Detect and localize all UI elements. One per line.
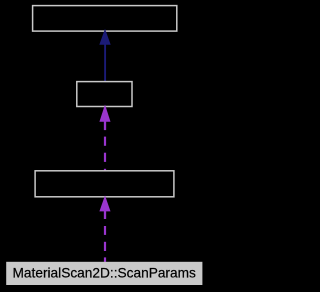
wire: dashed shaft stub below arrowhead <box>104 121 106 130</box>
node MaterialScan2D::ScanParams (filled grey box) <box>6 262 202 285</box>
arrowhead: dashed usage arrow pointing up into middle box (darkorchid) <box>99 105 110 122</box>
wire: dash segment 1 <box>104 137 106 146</box>
wire: dash segment 3 <box>104 257 106 262</box>
arrowhead: inheritance arrow pointing up into top box <box>99 29 110 45</box>
node box top (base class, label hidden on black) <box>33 6 177 32</box>
wire: dash segment 2 <box>104 153 106 162</box>
wire: dash segment 1 <box>104 226 106 235</box>
wire: dashed shaft stub below arrowhead <box>104 211 106 219</box>
node box third <box>35 171 174 197</box>
svg-text:MaterialScan2D::ScanParams: MaterialScan2D::ScanParams <box>13 266 196 281</box>
arrowhead: dashed usage arrow pointing up into third box (darkorchid) <box>99 195 110 211</box>
wire: dash segment 2 <box>104 242 106 251</box>
wire: dash segment 3 <box>104 169 106 171</box>
node box middle <box>77 82 132 107</box>
wire: solid inheritance arrow shaft (midnightblue) <box>104 44 106 81</box>
